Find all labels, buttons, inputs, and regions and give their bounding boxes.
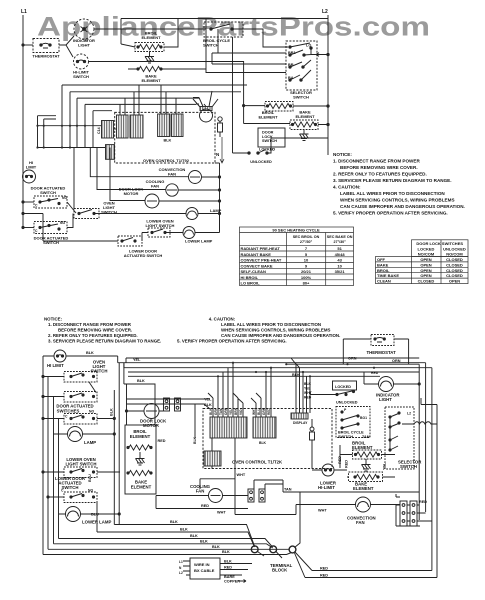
svg-text:OPEN: OPEN <box>420 257 431 262</box>
wire L1 rail <box>22 15 24 228</box>
lower oven light switch S9 <box>142 219 183 238</box>
svg-text:RED: RED <box>371 371 379 375</box>
cooling fan M21 <box>156 438 296 515</box>
svg-text:ELEMENT: ELEMENT <box>352 445 373 450</box>
door lock motor M20 <box>125 404 167 429</box>
svg-text:2. REFER ONLY TO FEATURES EQUI: 2. REFER ONLY TO FEATURES EQUIPPED. <box>48 333 138 338</box>
node N <box>216 137 224 163</box>
svg-text:3. SERVICER PLEASE RETURN DIAG: 3. SERVICER PLEASE RETURN DIAGRAM TO RAN… <box>333 178 452 183</box>
svg-text:BLK: BLK <box>180 528 188 532</box>
svg-text:SWITCH: SWITCH <box>293 95 309 100</box>
svg-text:1. DISCONNECT RANGE FROM POWER: 1. DISCONNECT RANGE FROM POWER <box>48 322 132 327</box>
wire left border rail <box>42 356 44 555</box>
fuse F1 <box>218 117 223 137</box>
ground mid elements <box>362 459 371 471</box>
door lock motor M1 <box>193 91 218 122</box>
svg-text:CONVECT BAKE: CONVECT BAKE <box>241 263 273 268</box>
svg-text:RED: RED <box>345 460 349 468</box>
svg-text:RED: RED <box>419 500 427 504</box>
wire tan row <box>283 491 419 493</box>
wire connector drops <box>120 85 176 115</box>
wire bottom bus 5 <box>48 548 289 550</box>
svg-text:OPEN: OPEN <box>420 268 431 273</box>
bake element R21 <box>127 470 152 489</box>
svg-text:THERMOSTAT: THERMOSTAT <box>32 54 60 59</box>
selector pins J25 <box>400 501 407 526</box>
wire bus 2 <box>124 363 432 368</box>
svg-text:CLOSED: CLOSED <box>446 273 463 278</box>
locked switch S26 <box>310 381 358 405</box>
wire selector feeders <box>206 19 286 73</box>
connector J20 <box>291 413 308 419</box>
ground broil bottom <box>136 452 145 465</box>
svg-text:51: 51 <box>337 246 342 251</box>
broil element R22 <box>338 441 395 471</box>
svg-text:YEL: YEL <box>204 398 212 402</box>
junction bus dots <box>217 362 375 378</box>
oven control U1 <box>115 112 215 163</box>
lamp DS20 <box>54 408 115 445</box>
svg-text:YEL: YEL <box>304 387 311 391</box>
cooling fan M3 <box>146 179 221 196</box>
svg-text:27°/30°: 27°/30° <box>300 240 313 244</box>
svg-text:5. VERIFY PROPER OPERATION AFT: 5. VERIFY PROPER OPERATION AFTER SERVICI… <box>177 339 287 344</box>
svg-text:5. VERIFY PROPER OPERATION AFT: 5. VERIFY PROPER OPERATION AFTER SERVICI… <box>333 211 448 216</box>
svg-text:L2: L2 <box>407 412 411 416</box>
svg-text:TAN: TAN <box>284 488 292 492</box>
wire top rail <box>121 19 328 45</box>
wire right rail B <box>425 363 427 512</box>
svg-text:OPEN: OPEN <box>420 273 431 278</box>
svg-text:LABEL ALL WIRES PRIOR TO DISCO: LABEL ALL WIRES PRIOR TO DISCONNECTION <box>221 322 321 327</box>
svg-text:SWITCH: SWITCH <box>73 74 89 79</box>
svg-text:L1: L1 <box>179 560 183 564</box>
svg-text:BROIL: BROIL <box>377 268 390 273</box>
wire control box bottom rail <box>215 162 220 164</box>
svg-text:BLK: BLK <box>86 351 94 355</box>
wire bus yel <box>118 362 426 364</box>
wire bus orn <box>128 371 419 373</box>
junction L2 mid <box>327 105 329 107</box>
svg-text:MOTOR: MOTOR <box>143 423 160 428</box>
svg-text:LIGHT SWITCH: LIGHT SWITCH <box>146 223 175 228</box>
svg-text:RED: RED <box>320 574 328 578</box>
svg-text:5: 5 <box>305 252 308 257</box>
svg-text:4. CAUTION:: 4. CAUTION: <box>209 317 236 322</box>
svg-text:10: 10 <box>337 263 342 268</box>
svg-text:SEC BAKE ON: SEC BAKE ON <box>327 235 353 239</box>
svg-text:SWITCH: SWITCH <box>62 485 79 490</box>
wire yel blk runs <box>127 399 211 409</box>
indicator light DS22 <box>364 371 420 402</box>
junction L2 low <box>327 123 329 125</box>
svg-text:WHT: WHT <box>237 473 246 477</box>
svg-text:LAMP: LAMP <box>84 440 96 445</box>
wire thermostat to splits <box>59 36 74 57</box>
svg-text:BLK: BLK <box>292 373 300 377</box>
svg-text:C: C <box>35 229 38 233</box>
svg-text:ORN: ORN <box>224 407 228 415</box>
wire strip pin drops <box>213 363 271 417</box>
broil cycle switch S2 <box>203 22 243 48</box>
svg-text:TAN: TAN <box>219 408 223 415</box>
label bare copper <box>224 575 240 584</box>
svg-text:L2: L2 <box>322 9 328 15</box>
wire mesh lower horizontals <box>38 126 106 148</box>
svg-text:ELEMENT: ELEMENT <box>130 434 151 439</box>
svg-text:DOOR LOCK SWITCHES: DOOR LOCK SWITCHES <box>416 241 463 246</box>
svg-text:WHT: WHT <box>252 408 256 415</box>
wire hi-limit row BLK <box>43 355 118 357</box>
svg-text:GRY: GRY <box>214 407 218 415</box>
thermostat TH20 <box>343 335 408 365</box>
svg-text:OVEN CONTROL T1/T92: OVEN CONTROL T1/T92 <box>143 158 190 163</box>
svg-text:BLK: BLK <box>137 379 145 383</box>
lower door actuated switch S10 <box>22 212 163 258</box>
connector C15 <box>106 145 115 160</box>
svg-text:CLOSED: CLOSED <box>446 262 463 267</box>
svg-text:CLOSED: CLOSED <box>418 279 435 284</box>
svg-text:FAN: FAN <box>196 489 205 494</box>
wire staircase to fans <box>74 148 189 210</box>
svg-text:BEFORE REMOVING WIRE COVER.: BEFORE REMOVING WIRE COVER. <box>340 165 418 170</box>
svg-text:GRN: GRN <box>262 407 266 415</box>
wire right rail lower <box>219 163 221 231</box>
ground bake element <box>300 130 309 141</box>
svg-text:ELEMENT: ELEMENT <box>258 115 278 120</box>
svg-text:20/21: 20/21 <box>301 269 312 274</box>
svg-text:OFF: OFF <box>377 257 386 262</box>
svg-text:LOCKED: LOCKED <box>335 385 351 389</box>
svg-text:BLK: BLK <box>164 139 172 143</box>
wire selector to L2 <box>311 53 328 57</box>
connector J27 <box>204 451 221 466</box>
svg-text:3. SERVICER PLEASE RETURN DIAG: 3. SERVICER PLEASE RETURN DIAGRAM TO RAN… <box>48 339 161 344</box>
svg-text:DISPLAY: DISPLAY <box>293 421 308 425</box>
svg-text:RADIANT PRE-HEAT: RADIANT PRE-HEAT <box>241 246 281 251</box>
wire bottom bus 1 <box>114 525 254 547</box>
svg-text:OPEN: OPEN <box>420 262 431 267</box>
wire in bx cable W1 <box>179 558 220 579</box>
wire bottom bus 2 <box>97 503 255 548</box>
svg-text:HI-LIMIT: HI-LIMIT <box>318 485 335 490</box>
wire bus top <box>126 358 419 363</box>
svg-text:OPEN: OPEN <box>449 279 460 284</box>
broil element R3 <box>243 102 329 120</box>
wire right rail D <box>421 398 437 578</box>
wire left rail 3 <box>53 397 55 544</box>
svg-text:LIMIT: LIMIT <box>26 165 37 170</box>
door lock motor M4 <box>119 187 221 209</box>
svg-text:THERMOSTAT: THERMOSTAT <box>367 350 397 355</box>
svg-text:TIME BAKE: TIME BAKE <box>377 273 399 278</box>
wire broil cycle to selector <box>243 29 288 47</box>
svg-text:WHEN SERVICING CONTROLS, WIRIN: WHEN SERVICING CONTROLS, WIRING PROBLEMS <box>340 198 455 203</box>
svg-text:SWITCH: SWITCH <box>40 190 56 195</box>
svg-text:L1: L1 <box>21 9 27 15</box>
svg-text:NO: NO <box>89 410 94 414</box>
svg-text:ORN: ORN <box>392 359 401 363</box>
svg-text:LIGHT: LIGHT <box>78 43 91 48</box>
svg-text:C: C <box>65 415 68 419</box>
svg-text:80+: 80+ <box>303 281 310 286</box>
svg-text:CLOSED: CLOSED <box>446 268 463 273</box>
fuse F20 <box>310 419 315 468</box>
svg-text:BLK: BLK <box>224 560 232 564</box>
svg-text:9: 9 <box>305 263 308 268</box>
svg-text:YEL: YEL <box>133 358 141 362</box>
lower lamp DS2 <box>183 214 220 244</box>
svg-text:TAN: TAN <box>362 435 370 439</box>
svg-text:OVEN CONTROL T1/T2K: OVEN CONTROL T1/T2K <box>232 460 283 465</box>
terminal lug T1 <box>251 546 258 553</box>
convection fan M22 <box>296 497 400 525</box>
door lock pins J21 <box>164 398 170 411</box>
svg-text:HI LIMIT: HI LIMIT <box>47 363 64 368</box>
hi limit S5 <box>23 160 37 183</box>
selector pins J26 <box>410 501 417 526</box>
wire blk to broil box <box>124 384 127 425</box>
wire bus line orn2 <box>286 363 419 365</box>
terminal lug T2 <box>270 546 277 553</box>
connector strip A <box>210 417 247 438</box>
svg-text:BLU: BLU <box>88 474 92 482</box>
notice text block <box>333 152 465 216</box>
lamp DS1 <box>186 208 222 220</box>
wire left rail 4 <box>58 419 60 539</box>
svg-text:BARE: BARE <box>224 575 235 579</box>
svg-text:WHT: WHT <box>318 509 327 513</box>
note text block bottom <box>44 317 340 344</box>
label yel blk <box>204 398 212 408</box>
svg-text:RED: RED <box>267 408 271 415</box>
junction mesh dots <box>36 125 86 149</box>
wire bottom bus 6 <box>43 553 292 555</box>
svg-text:WHT: WHT <box>217 511 226 515</box>
svg-text:WIRE IN: WIRE IN <box>194 562 210 567</box>
selector switch S29 <box>385 407 422 469</box>
svg-text:ORN: ORN <box>348 357 357 361</box>
svg-text:27°/30°: 27°/30° <box>334 240 347 244</box>
lower oven light switch S24 <box>42 457 120 478</box>
svg-text:ELEMENT: ELEMENT <box>141 78 161 83</box>
wire indicator to broil cycle switch <box>94 28 206 30</box>
svg-text:SWITCH: SWITCH <box>338 435 353 439</box>
svg-text:RED: RED <box>304 396 312 400</box>
svg-text:FAN: FAN <box>168 172 176 177</box>
svg-text:ELEMENT: ELEMENT <box>353 486 374 491</box>
door lock pins J22 <box>175 398 181 411</box>
svg-text:VIO: VIO <box>239 409 243 415</box>
bake element R23 <box>347 472 395 491</box>
svg-text:ELEMENT: ELEMENT <box>131 484 152 489</box>
svg-text:AppliancePartsPros.com: AppliancePartsPros.com <box>37 12 430 42</box>
wire bus 4 <box>128 375 380 377</box>
svg-text:RED: RED <box>224 566 232 570</box>
terminal block label <box>270 563 293 573</box>
label BLK bus <box>170 520 230 554</box>
svg-text:N: N <box>179 566 182 570</box>
svg-text:RED: RED <box>201 504 209 508</box>
svg-text:NO/COM: NO/COM <box>418 252 435 257</box>
svg-text:MOTOR: MOTOR <box>124 191 139 196</box>
hi-limit switch S1 <box>73 54 89 79</box>
svg-text:LIGHT SWITCH: LIGHT SWITCH <box>65 462 96 467</box>
wire bottom bus 3 <box>59 539 273 548</box>
svg-text:P: P <box>344 408 347 412</box>
svg-text:43: 43 <box>337 258 342 263</box>
svg-text:RADIANT BAKE: RADIANT BAKE <box>241 252 272 257</box>
svg-text:90 SEC HEATING CYCLE: 90 SEC HEATING CYCLE <box>272 228 320 233</box>
svg-text:SWITCH: SWITCH <box>262 139 277 143</box>
svg-text:UNLOCKED: UNLOCKED <box>250 160 272 164</box>
connector P3 <box>158 114 170 137</box>
svg-text:L2: L2 <box>179 571 183 575</box>
wire lug diagonals <box>258 552 313 578</box>
wire left rail 2 <box>47 377 49 550</box>
oven light switch S21 <box>42 360 108 393</box>
svg-text:BAKE: BAKE <box>377 262 389 267</box>
lower hi-limit S28 <box>312 464 347 490</box>
door actuated switch S8 <box>22 214 73 246</box>
wire L2 rail <box>327 15 329 155</box>
svg-text:7: 7 <box>305 246 308 251</box>
indicator light IL1 <box>73 19 95 48</box>
svg-text:45/48: 45/48 <box>335 252 346 257</box>
svg-text:LABEL ALL WIRES PRIOR TO DISCO: LABEL ALL WIRES PRIOR TO DISCONNECTION <box>340 191 445 196</box>
wire mid rails <box>114 356 124 525</box>
svg-text:BLK: BLK <box>259 441 267 445</box>
wire wht row <box>296 505 356 515</box>
svg-text:BLK: BLK <box>200 539 208 543</box>
table door lock switches <box>376 240 469 284</box>
thermostat TH1 <box>32 39 60 59</box>
svg-text:SWITCH: SWITCH <box>203 43 219 48</box>
cooling fan pins J24 <box>259 489 265 502</box>
svg-text:RED: RED <box>158 439 166 443</box>
svg-text:CAN CAUSE IMPROPER AND DANGERO: CAN CAUSE IMPROPER AND DANGEROUS OPERATI… <box>221 333 340 338</box>
connector P4 <box>172 114 184 137</box>
lower lamp DS21 <box>59 507 120 525</box>
wire pins to right <box>254 480 283 492</box>
svg-text:NOTICE:: NOTICE: <box>333 152 352 157</box>
door lock switch S4 <box>233 37 329 164</box>
wire bottom bus 4 <box>54 544 273 548</box>
svg-text:UNLOCKED: UNLOCKED <box>336 401 358 405</box>
svg-text:BLU: BLU <box>257 408 261 415</box>
svg-text:BLK: BLK <box>110 408 114 416</box>
svg-text:BLK: BLK <box>190 534 198 538</box>
svg-text:WHEN SERVICING CONTROLS, WIRIN: WHEN SERVICING CONTROLS, WIRING PROBLEMS <box>221 328 331 333</box>
svg-text:ACTUATED SWITCH: ACTUATED SWITCH <box>124 253 163 258</box>
convection fan M2 <box>159 167 221 184</box>
svg-text:BLK: BLK <box>170 520 178 524</box>
svg-text:COPPER: COPPER <box>224 580 240 584</box>
table heating cycle <box>240 227 354 286</box>
svg-text:1. DISCONNECT RANGE FROM POWER: 1. DISCONNECT RANGE FROM POWER <box>333 159 420 164</box>
svg-text:LIGHT: LIGHT <box>379 397 392 402</box>
connector strip B <box>253 417 276 438</box>
broil cycle switch S27 <box>336 407 370 439</box>
ground broil element <box>145 52 154 64</box>
svg-text:ELEMENT: ELEMENT <box>295 114 315 119</box>
wire right rail A <box>418 364 420 520</box>
wire mesh bus verticals <box>62 85 93 148</box>
svg-text:BLU: BLU <box>91 513 99 517</box>
svg-text:BLK: BLK <box>222 550 230 554</box>
door actuated switch S22 <box>42 392 97 414</box>
svg-text:4. CAUTION:: 4. CAUTION: <box>333 185 361 190</box>
wire drop to lug <box>295 492 301 548</box>
wire selector squiggle <box>402 422 437 424</box>
svg-text:BX CABLE: BX CABLE <box>194 568 215 573</box>
svg-text:RED: RED <box>320 567 328 571</box>
svg-text:SWITCH: SWITCH <box>400 464 417 469</box>
broil element box R20 <box>125 425 166 494</box>
connector P2 <box>130 115 143 138</box>
hi limit S20 <box>47 350 66 368</box>
svg-text:LAMP: LAMP <box>210 208 222 213</box>
svg-text:BLK: BLK <box>212 545 220 549</box>
svg-text:CONVECT PRE-HEAT: CONVECT PRE-HEAT <box>241 258 282 263</box>
svg-text:LO BROIL: LO BROIL <box>241 281 261 286</box>
svg-text:C14: C14 <box>97 127 101 134</box>
svg-text:YEL: YEL <box>383 462 387 470</box>
terminal lug T3 <box>289 546 296 553</box>
svg-text:SWITCH: SWITCH <box>91 369 108 374</box>
broil element R1 <box>121 19 178 52</box>
svg-text:CAN CAUSE IMPROPER AND DANGERO: CAN CAUSE IMPROPER AND DANGEROUS OPERATI… <box>340 204 465 209</box>
connector C14 <box>97 121 117 139</box>
svg-text:10: 10 <box>304 258 309 263</box>
wire left bus verticals <box>38 116 57 148</box>
svg-text:SELF-CLEAN: SELF-CLEAN <box>241 269 266 274</box>
oven light switch S7 <box>74 201 186 219</box>
bake element R4 <box>244 110 328 130</box>
svg-text:NO: NO <box>88 489 93 493</box>
svg-text:SWITCHES: SWITCHES <box>57 409 80 414</box>
cooling fan pins J23 <box>248 489 254 502</box>
svg-text:NOTICE:: NOTICE: <box>44 317 63 322</box>
svg-text:BO1: BO1 <box>360 416 367 420</box>
svg-text:N: N <box>216 152 219 157</box>
svg-text:FAN: FAN <box>151 184 159 189</box>
center bundle verticals <box>291 358 310 413</box>
wire red bottom runs <box>305 571 437 578</box>
svg-text:YEL: YEL <box>229 409 233 415</box>
svg-text:NO: NO <box>62 196 67 200</box>
svg-text:2. REFER ONLY TO FEATURES EQUI: 2. REFER ONLY TO FEATURES EQUIPPED. <box>333 172 427 177</box>
junction L2 top <box>327 53 329 55</box>
wire right rail C <box>431 368 433 571</box>
svg-text:LOWER LAMP: LOWER LAMP <box>185 239 213 244</box>
selector switch S3 <box>286 41 317 100</box>
svg-text:CLEAN: CLEAN <box>377 279 391 284</box>
wire pins connections <box>396 494 432 521</box>
svg-text:BLK: BLK <box>304 382 312 386</box>
svg-text:NO/COM: NO/COM <box>446 252 463 257</box>
svg-text:100%: 100% <box>301 275 312 280</box>
wire L1 to thermostat <box>23 44 33 46</box>
svg-text:SEC BROIL ON: SEC BROIL ON <box>293 235 320 239</box>
door actuated switch S6 <box>22 186 76 214</box>
oven control U20 <box>203 409 332 469</box>
connector P1 <box>117 115 129 138</box>
wire hi-limit run <box>89 62 244 124</box>
wire mesh bus horizontals <box>62 85 247 111</box>
svg-text:C: C <box>35 204 38 208</box>
lower door actuated switch S25 <box>47 474 97 503</box>
